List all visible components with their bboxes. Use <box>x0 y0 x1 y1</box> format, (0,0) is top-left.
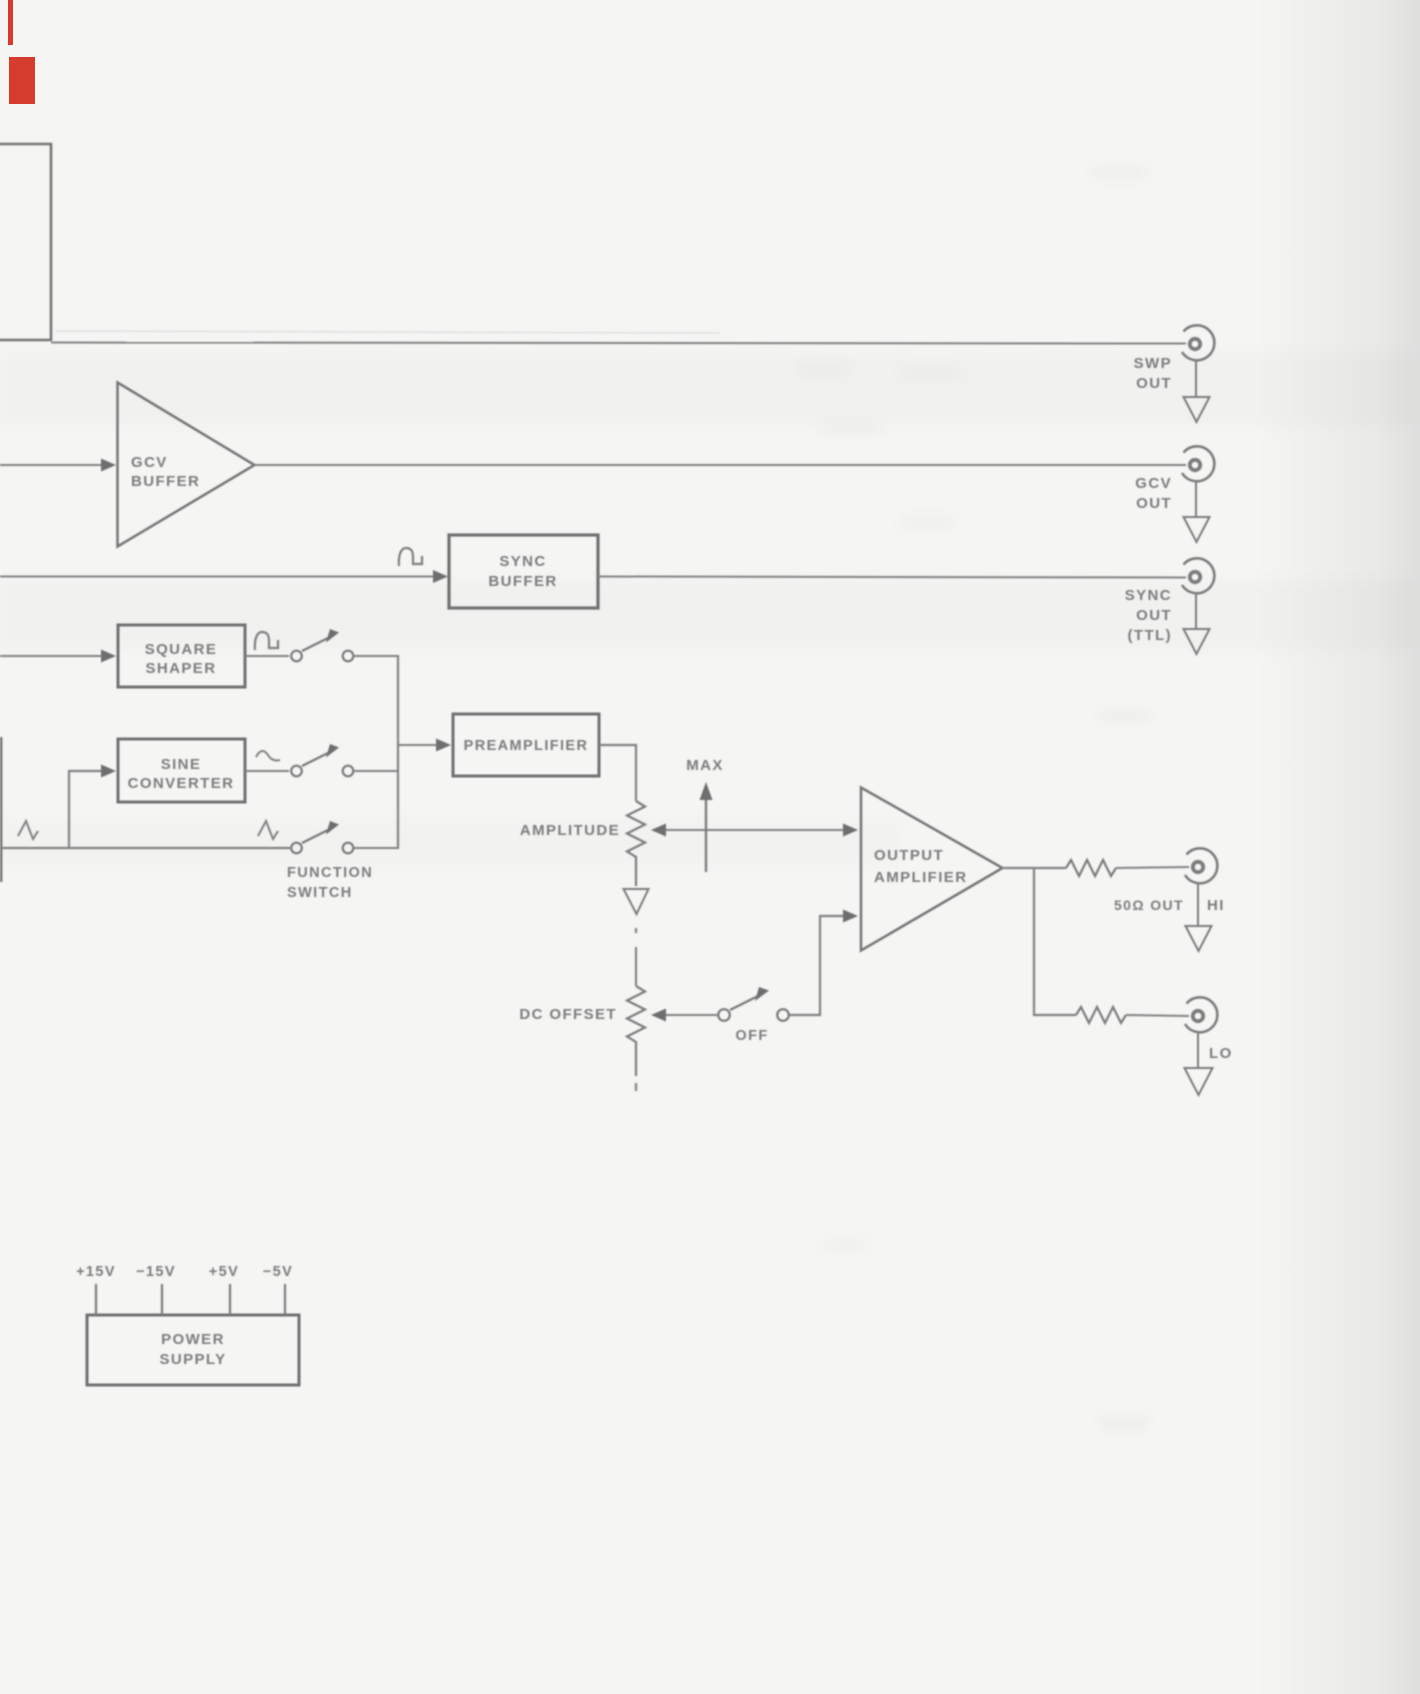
svg-text:OUT: OUT <box>1136 495 1172 512</box>
arrow into square shaper <box>101 650 116 663</box>
power stub -15V <box>161 1284 163 1315</box>
arrow into sine converter <box>101 765 116 778</box>
wire: switch3 to bus <box>355 847 400 849</box>
BNC connector 50 ohm OUT HI <box>1185 848 1217 883</box>
ground below LO <box>1185 1034 1213 1096</box>
power stub +5V <box>229 1284 231 1315</box>
wire: preamp out, corner down to amplitude pot <box>599 745 636 801</box>
svg-text:SYNC: SYNC <box>499 553 546 570</box>
svg-text:BUFFER: BUFFER <box>131 473 200 490</box>
svg-text:SWITCH: SWITCH <box>287 885 353 901</box>
svg-text:FUNCTION: FUNCTION <box>287 865 373 881</box>
switch DC offset (OFF) <box>718 995 789 1021</box>
ground below amplitude pot <box>624 889 649 914</box>
square pulse glyph on sync wire <box>399 548 422 566</box>
ground below HI <box>1186 885 1212 952</box>
wire: square shaper input <box>0 655 103 657</box>
wire to HI BNC <box>1116 867 1189 868</box>
svg-text:SHAPER: SHAPER <box>146 660 217 677</box>
sine glyph above <box>256 751 280 760</box>
wire: switch to output amplifier lower input <box>790 916 846 1015</box>
wire: to sine converter (vertical riser) <box>69 771 103 848</box>
ground below GCV OUT <box>1184 483 1210 543</box>
svg-text:SUPPLY: SUPPLY <box>159 1351 226 1368</box>
arrow into preamplifier <box>436 739 451 752</box>
wire: sine converter to switch <box>245 770 289 772</box>
wire: GCV input <box>0 464 103 466</box>
svg-text:HI: HI <box>1207 897 1225 914</box>
svg-text:(TTL): (TTL) <box>1128 627 1172 644</box>
svg-text:OUTPUT: OUTPUT <box>874 847 944 864</box>
BNC connector SWP OUT <box>1182 325 1214 360</box>
svg-text:50Ω OUT: 50Ω OUT <box>1114 897 1184 913</box>
switch 1 (square) <box>291 637 353 661</box>
vertical bus to preamp <box>397 655 399 849</box>
svg-text:OFF: OFF <box>735 1028 768 1044</box>
wire: triangle bottom line <box>1 847 290 849</box>
svg-text:PREAMPLIFIER: PREAMPLIFIER <box>464 738 589 754</box>
op-amp GCV BUFFER <box>118 383 255 547</box>
svg-text:MAX: MAX <box>686 757 724 774</box>
svg-text:−5V: −5V <box>263 1264 293 1280</box>
svg-text:+15V: +15V <box>76 1264 116 1280</box>
MAX arrow <box>705 797 707 872</box>
BNC connector SYNC OUT <box>1182 558 1214 593</box>
block SYNC BUFFER <box>449 535 598 608</box>
potentiometer DC OFFSET (zigzag) <box>627 986 645 1076</box>
BNC connector LO <box>1185 997 1217 1032</box>
square pulse glyph above <box>255 632 278 650</box>
sweep generator box (cut off at left edge) <box>0 144 51 341</box>
svg-text:GCV: GCV <box>1135 475 1172 492</box>
wire: square shaper to switch <box>245 655 289 657</box>
svg-text:SYNC: SYNC <box>1125 587 1172 604</box>
triangle wave glyph before switch 3 <box>258 821 278 839</box>
wire: switch2 to bus <box>355 770 400 772</box>
sweep/triangle source box (cut off at left edge) <box>0 737 2 882</box>
ground below SWP OUT <box>1184 362 1210 423</box>
wire: switch1 to bus <box>355 655 400 657</box>
wire: SYNC OUT line <box>598 577 1186 578</box>
svg-text:OUT: OUT <box>1136 375 1172 392</box>
svg-text:GCV: GCV <box>131 454 168 471</box>
svg-text:OUT: OUT <box>1136 607 1172 624</box>
wire: bus to preamplifier <box>398 744 437 746</box>
arrow into GCV buffer <box>101 459 116 472</box>
svg-text:POWER: POWER <box>161 1331 225 1348</box>
power stub -5V <box>284 1284 286 1315</box>
wiper arrow amplitude, line to output amplifier <box>663 829 845 831</box>
wire: GCV OUT line <box>254 464 1186 466</box>
wiper arrow DC offset <box>663 1014 717 1016</box>
resistor to LO output <box>1076 1007 1126 1023</box>
svg-text:−15V: −15V <box>136 1264 176 1280</box>
wire: SYNC input <box>0 576 436 578</box>
power stub +15V <box>95 1284 97 1315</box>
scan shadow above SWP wire <box>55 331 720 333</box>
svg-text:+5V: +5V <box>209 1264 239 1280</box>
block POWER SUPPLY <box>87 1315 299 1385</box>
switch 2 (sine) <box>291 752 353 776</box>
block SQUARE SHAPER <box>118 625 245 687</box>
svg-text:CONVERTER: CONVERTER <box>128 775 235 792</box>
svg-text:AMPLITUDE: AMPLITUDE <box>520 822 620 839</box>
svg-text:SQUARE: SQUARE <box>145 641 218 658</box>
wire: amp output with branch junction <box>1002 868 1076 1015</box>
triangle wave glyph far left <box>18 821 38 839</box>
wire: SWP OUT line <box>51 343 1186 344</box>
svg-text:SINE: SINE <box>161 756 202 773</box>
faint bleed-through smudges <box>795 170 1150 1427</box>
block SINE CONVERTER <box>118 739 245 802</box>
svg-text:LO: LO <box>1209 1045 1233 1062</box>
svg-text:DC OFFSET: DC OFFSET <box>519 1006 617 1023</box>
BNC connector GCV OUT <box>1182 446 1214 481</box>
red registration marks top-left <box>8 0 13 45</box>
potentiometer AMPLITUDE (zigzag) <box>627 801 645 886</box>
dashed tail below <box>635 1083 637 1092</box>
arrow into sync buffer <box>433 570 448 583</box>
switch 3 (triangle) <box>291 829 353 853</box>
ground below SYNC OUT <box>1184 595 1210 655</box>
wire to LO BNC <box>1126 1015 1189 1016</box>
wire: top of DC OFFSET pot <box>635 947 637 986</box>
resistor to HI output <box>1066 860 1116 876</box>
svg-text:SWP: SWP <box>1134 355 1172 372</box>
dashed gang link <box>635 928 637 940</box>
block PREAMPLIFIER <box>453 714 599 776</box>
op-amp OUTPUT AMPLIFIER <box>861 788 1003 951</box>
svg-text:AMPLIFIER: AMPLIFIER <box>874 869 967 886</box>
svg-text:BUFFER: BUFFER <box>488 573 557 590</box>
